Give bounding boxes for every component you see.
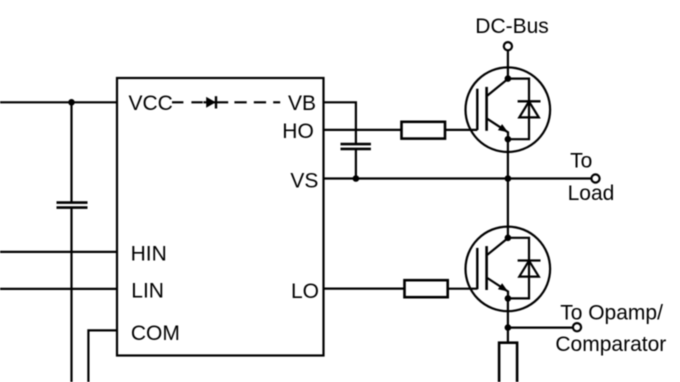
- resistor R1 high-side gate: [402, 122, 446, 139]
- svg-text:COM: COM: [131, 322, 180, 345]
- wire C1 lower lead: [70, 208, 72, 382]
- resistor R3 current shunt: [499, 343, 517, 382]
- svg-text:LO: LO: [291, 280, 319, 303]
- terminal To Opamp/Comparator: [573, 323, 581, 331]
- svg-text:VB: VB: [288, 92, 316, 115]
- node Q2 emitter: [505, 295, 512, 302]
- svg-text:To Opamp/: To Opamp/: [560, 302, 663, 325]
- wire C2 lower lead: [355, 150, 357, 179]
- wire LO to gate resistor: [324, 288, 405, 290]
- resistor R2 low-side gate: [405, 280, 448, 297]
- node Q2 collector: [505, 235, 512, 242]
- capacitor C2 bootstrap: [341, 144, 371, 149]
- terminal To Load: [591, 174, 599, 182]
- transistor Q1 high-side IGBT with freewheel diode: [466, 67, 551, 152]
- svg-text:To: To: [570, 149, 592, 172]
- node C2/VS junction: [353, 175, 360, 182]
- wire LIN input: [0, 288, 117, 290]
- capacitor C1 VCC bypass: [57, 203, 88, 208]
- svg-text:Comparator: Comparator: [555, 333, 666, 356]
- transistor Q2 low-side IGBT with freewheel diode: [466, 227, 551, 312]
- svg-text:DC-Bus: DC-Bus: [475, 15, 549, 38]
- wire R1 to Q1 gate: [445, 129, 477, 131]
- wire DC-Bus to Q1 collector: [507, 50, 509, 78]
- wire R2 to Q2 gate: [448, 288, 478, 290]
- svg-text:VCC: VCC: [129, 92, 173, 115]
- bootstrap diode D1 dashed link VCC to VB: [172, 96, 280, 108]
- wire HIN input: [0, 251, 117, 253]
- svg-text:HIN: HIN: [131, 242, 167, 265]
- wire sense to terminal: [508, 327, 573, 329]
- svg-text:HO: HO: [282, 120, 314, 143]
- node VS/phase junction: [505, 175, 512, 182]
- wire HO to gate resistor: [324, 129, 402, 131]
- node VCC/C1 junction: [68, 99, 75, 106]
- svg-text:LIN: LIN: [131, 280, 164, 303]
- IC U1 gate-driver box: [117, 78, 324, 356]
- node Q1 collector: [505, 75, 512, 82]
- wire VS rail to load: [324, 177, 592, 179]
- wire Q1 emitter to VS rail: [507, 139, 509, 178]
- wire phase node to Q2 collector: [507, 179, 509, 238]
- svg-text:VS: VS: [290, 170, 318, 193]
- wire C1 upper lead: [70, 102, 72, 202]
- wire COM lead: [88, 330, 117, 382]
- wire VB to bootstrap capacitor: [324, 102, 356, 143]
- node sense junction: [505, 324, 512, 331]
- wire VCC supply rail: [0, 101, 117, 103]
- svg-text:Load: Load: [568, 182, 615, 205]
- terminal DC-Bus: [504, 42, 512, 50]
- wire Q2 emitter down: [507, 298, 509, 342]
- node Q1 emitter: [505, 136, 512, 143]
